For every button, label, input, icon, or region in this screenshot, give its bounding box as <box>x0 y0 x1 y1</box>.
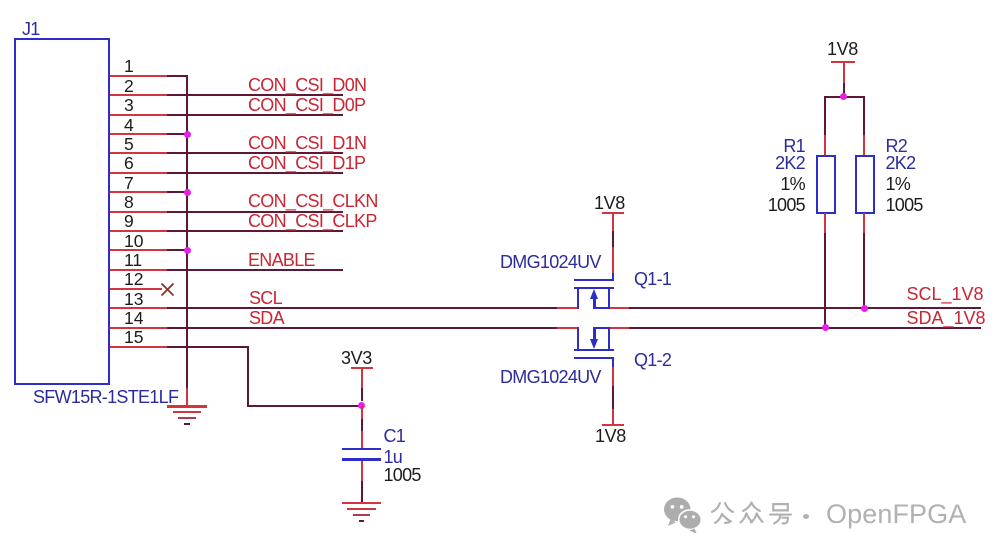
net label SCL_1V8 <box>907 285 984 303</box>
pin 2 stub R2 <box>863 213 865 235</box>
designator R2 <box>886 137 908 155</box>
label DMG1024UV (Q1-2) <box>500 368 601 386</box>
junction pin 4 on GND bus <box>184 131 191 138</box>
pin 6 of J1 <box>110 172 169 174</box>
wire net CON_CSI_CLKP <box>167 230 343 232</box>
pin number 7 <box>124 175 134 193</box>
wire SCL from pin 13 <box>167 307 558 309</box>
transistor Q1-1 <box>0 0 1 1</box>
net label CON_CSI_CLKN <box>248 192 378 210</box>
ground (J1 shield pins) <box>0 0 1 1</box>
net label CON_CSI_D1P <box>248 154 365 172</box>
power port 1V8 (gate top) <box>0 0 1 1</box>
resistor R1 body <box>816 155 836 214</box>
pin 1 stub C1 <box>361 431 363 449</box>
pin stub Q1-1 right <box>609 307 630 309</box>
net label SCL <box>249 289 282 307</box>
designator R1 <box>783 137 805 155</box>
net label CON_CSI_CLKP <box>248 212 377 230</box>
resistor R2 body <box>855 155 875 214</box>
pin 1 stub R1 <box>824 135 826 156</box>
pin 3 of J1 <box>110 114 169 116</box>
value SFW15R-1STE1LF <box>33 388 178 406</box>
pin stub Q1-2 right <box>609 327 630 329</box>
wire R1 bottom <box>824 233 826 328</box>
pin 10 of J1 <box>110 249 169 251</box>
wire to C1 junction <box>247 405 363 407</box>
label DMG1024UV (Q1-1) <box>500 253 601 271</box>
wire 1V8 to Q1-1 gate <box>612 231 614 248</box>
wire pin 15 down <box>247 346 249 407</box>
pin 14 of J1 <box>110 327 169 329</box>
pin number 6 <box>124 155 134 173</box>
wire junction to C1 <box>361 406 363 420</box>
value 2K2 (R1) <box>775 154 805 172</box>
wire to C1 pin <box>361 419 363 432</box>
wire net CON_CSI_D0P <box>167 114 343 116</box>
pin stub Q1-1 left <box>557 307 579 309</box>
junction R2 on wire <box>861 305 868 312</box>
pin number 8 <box>124 194 134 212</box>
wire pin 10 to GND bus <box>167 249 188 251</box>
wire SDA_1V8 <box>629 327 981 329</box>
wire pin 15 horizontal <box>167 346 249 348</box>
pin 8 of J1 <box>110 211 169 213</box>
ground (C1) <box>0 0 1 1</box>
pin 15 of J1 <box>110 346 169 348</box>
capacitor C1 plates <box>0 0 1 1</box>
pin 1 of J1 <box>110 75 169 77</box>
size 1005 (C1) <box>384 466 421 484</box>
wire C1 to ground <box>361 481 363 503</box>
wire pin 1 to GND bus <box>167 75 188 77</box>
pin number 13 <box>124 291 143 309</box>
pin number 15 <box>124 329 143 347</box>
pin number 12 <box>124 271 143 289</box>
transistor Q1-2 <box>0 0 1 1</box>
pin 1 stub R2 <box>863 135 865 156</box>
junction pin 10 on GND bus <box>184 247 191 254</box>
wire pin 4 to GND bus <box>167 133 188 135</box>
power port 1V8 (pull-ups) <box>0 0 1 1</box>
net label CON_CSI_D1N <box>248 134 366 152</box>
wire SCL_1V8 <box>629 307 981 309</box>
tolerance 1% (R1) <box>780 175 805 193</box>
net label SDA <box>249 309 284 327</box>
net label SDA_1V8 <box>907 309 986 327</box>
net label CON_CSI_D0N <box>248 76 366 94</box>
wire R1-R2 top link <box>824 96 865 98</box>
wire 1V8 down to junction <box>843 83 845 98</box>
wire SDA from pin 14 <box>167 327 558 329</box>
value 2K2 (R2) <box>886 154 916 172</box>
pin stub Q1-2 gate <box>612 367 614 387</box>
size 1005 (R2) <box>886 196 923 214</box>
no-connect X pin 12 <box>160 282 175 297</box>
designator Q1-2 <box>634 351 671 369</box>
designator Q1-1 <box>634 270 671 288</box>
power port 3V3 <box>0 0 1 1</box>
power port 1V8 (gate bottom) <box>0 0 1 1</box>
pin number 9 <box>124 213 134 231</box>
designator C1 <box>384 427 406 445</box>
pin number 5 <box>124 136 134 154</box>
pin stub Q1-2 left <box>557 327 579 329</box>
pin 11 of J1 <box>110 269 169 271</box>
pin 2 stub R1 <box>824 213 826 235</box>
pin 2 stub C1 <box>361 461 363 483</box>
size 1005 (R1) <box>768 196 805 214</box>
wire pin 7 to GND bus <box>167 191 188 193</box>
wire net ENABLE <box>167 269 343 271</box>
wire 3V3 to junction <box>361 388 363 401</box>
tolerance 1% (R2) <box>886 175 911 193</box>
pin number 14 <box>124 310 143 328</box>
wire R1 top <box>824 97 826 136</box>
wire net CON_CSI_CLKN <box>167 211 343 213</box>
pin 5 of J1 <box>110 152 169 154</box>
wire net CON_CSI_D1N <box>167 152 343 154</box>
junction 1V8/R1/R2 <box>840 93 847 100</box>
pin number 3 <box>124 97 134 115</box>
pin 2 of J1 <box>110 94 169 96</box>
watermark WeChat OpenFPGA <box>0 0 1 1</box>
pin number 1 <box>124 58 134 76</box>
pin 4 of J1 <box>110 133 169 135</box>
wire net CON_CSI_D0N <box>167 94 343 96</box>
pin 7 of J1 <box>110 191 169 193</box>
reference designator J1 <box>22 20 40 38</box>
wire GND bus vertical <box>186 75 188 388</box>
net label ENABLE <box>248 251 315 269</box>
wire R2 bottom <box>863 233 865 308</box>
junction R1 on wire <box>822 324 829 331</box>
pin number 10 <box>124 233 143 251</box>
junction pin 7 on GND bus <box>184 189 191 196</box>
pin 13 of J1 <box>110 307 169 309</box>
wire Q1-2 gate to 1V8 <box>612 386 614 410</box>
wire R2 top <box>863 97 865 136</box>
pin 9 of J1 <box>110 230 169 232</box>
pin stub Q1-1 gate <box>612 247 614 273</box>
connector J1 body <box>14 38 111 386</box>
wire net CON_CSI_D1P <box>167 172 343 174</box>
pin number 4 <box>124 117 134 135</box>
junction 3V3/C1/pin15 <box>358 402 365 409</box>
wire GND bus stub to ground <box>186 388 188 406</box>
pin 12 of J1 <box>110 288 162 290</box>
net label CON_CSI_D0P <box>248 96 365 114</box>
value 1u <box>384 448 403 466</box>
pin number 11 <box>124 252 142 270</box>
pin number 2 <box>124 78 134 96</box>
